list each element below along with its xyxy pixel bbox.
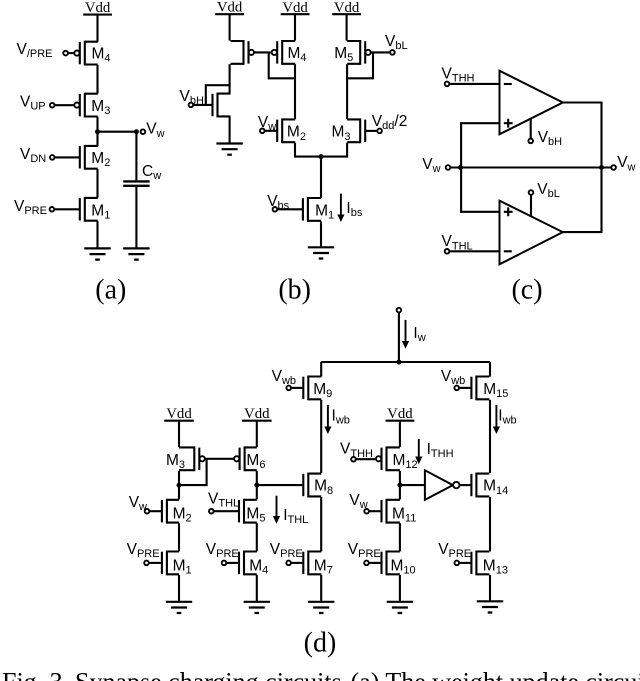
terminal V_DN: [50, 155, 55, 160]
wire U2 bias tap V_bL: [530, 195, 532, 216]
inverter U3 output bubble: [453, 482, 459, 488]
op-amp U1 (top comparator): [500, 71, 563, 135]
node rail junction: [396, 360, 401, 365]
terminal Vw (a): [141, 129, 146, 134]
transistor M3 (d, PMOS diode): [179, 446, 205, 471]
wire I_w terminal down to rail: [398, 312, 400, 362]
capacitor Cw: [123, 181, 149, 185]
terminal V_PRE (d col2): [222, 561, 227, 566]
wire bias NMOS source to ground: [229, 117, 231, 144]
svg-text:(a) The weight update circuit: (a) The weight update circuit: [351, 668, 640, 681]
transistor M2 (d): [162, 499, 179, 524]
svg-text:(b): (b): [278, 274, 311, 305]
node M3 drain junction: [177, 483, 182, 488]
svg-text:(a): (a): [95, 274, 126, 305]
wire M3 drain down through junction to M2 drain: [178, 471, 180, 499]
terminal V_PRE (d col4): [364, 561, 369, 566]
wire M4 drain to M3 source: [96, 65, 98, 94]
minus sign U2: [504, 250, 512, 252]
wire V_bs terminal to M1 gate: [277, 208, 303, 210]
ground below M1 (d): [166, 602, 192, 613]
terminal Vw right (c): [611, 165, 616, 170]
terminal Vdd/2: [377, 129, 382, 134]
terminal V_THH (d): [351, 457, 356, 462]
wire Vw terminal to M11 gate: [369, 510, 382, 512]
wire Vdd to M5 source: [346, 14, 348, 40]
terminal V_bH (c): [528, 139, 533, 144]
wire Vdd to left PMOS source: [229, 14, 231, 40]
minus sign U1: [504, 83, 512, 85]
wire V_bH gate to drain (diode connection): [206, 85, 230, 105]
wire node Vw to capacitor branch: [98, 131, 137, 133]
node Vw junction at capacitor: [134, 129, 139, 134]
wire V_PRE to M7 gate (d): [291, 562, 303, 564]
ground below V_bH device: [216, 144, 242, 155]
node M12 drain junction: [397, 483, 402, 488]
transistor M15: [471, 376, 489, 401]
wire M14 source to M13 drain: [489, 497, 491, 551]
wire M3 source to tail node: [321, 143, 347, 157]
wire V_THH to top comparator minus input: [449, 83, 499, 85]
wire M3 gate to Vdd/2 terminal: [365, 130, 377, 132]
transistor M11 (d): [382, 499, 400, 524]
svg-text:Vdd: Vdd: [244, 406, 270, 422]
svg-text:Vdd: Vdd: [166, 406, 192, 422]
terminal V_PRE (d col3): [286, 561, 291, 566]
terminal V_PRE (a): [50, 207, 55, 212]
terminal V_PRE (d col1): [144, 561, 149, 566]
transistor M3 (PMOS): [74, 93, 98, 118]
current arrow I_wb right: [493, 405, 500, 434]
terminal V_PRE (d col5): [455, 561, 460, 566]
transistor M6 (d, PMOS): [234, 446, 257, 471]
wire M2 source to tail node: [295, 143, 321, 157]
svg-text:Vdd: Vdd: [282, 0, 308, 16]
power Vdd rail (d) col2: [242, 406, 272, 422]
ground below M10 (d): [387, 602, 413, 613]
wire M3 drain through node Vw to M2 drain: [96, 117, 98, 146]
wire Vdd col3 down to M12 source: [399, 421, 401, 447]
wire M4 drain to M2 drain: [294, 64, 296, 119]
wire gate bus between PMOS bubbles: [254, 51, 271, 53]
wire junction to inverter input: [400, 484, 425, 486]
terminal V_THL (c): [445, 249, 450, 254]
node tail junction (b): [319, 154, 324, 159]
transistor M2 (NMOS): [80, 145, 98, 170]
wire M3 gate bus to M6 bubble: [205, 458, 234, 460]
transistor M1 (NMOS): [80, 197, 98, 222]
transistor M4 (PMOS): [74, 41, 98, 66]
wire V_PRE to M4 gate (d): [226, 562, 239, 564]
wire M3 gate to drain (diode connection): [179, 459, 207, 485]
wire V_THL terminal to M5 gate: [214, 510, 239, 512]
transistor M12 (d, PMOS): [376, 446, 400, 471]
plus sign U1: [504, 119, 513, 128]
transistor M3 (b): [347, 118, 365, 143]
svg-text:(d): (d): [304, 628, 337, 659]
wire M8 source to M7 drain: [320, 497, 322, 551]
wire V_PRE to M1 gate (d): [149, 562, 162, 564]
wire capacitor top: [135, 132, 137, 181]
terminal Vw (b): [260, 129, 265, 134]
wire V_PRE to M10 gate (d): [369, 562, 382, 564]
wire left PMOS drain down: [229, 64, 231, 93]
ground below M7 (d): [308, 602, 334, 613]
terminal V_bL (c): [529, 190, 534, 195]
wire V_THL to U2 minus input: [449, 250, 499, 252]
wire M5 source to M4 drain: [256, 523, 258, 551]
ground below M1 (b): [308, 247, 334, 258]
transistor bias NMOS V_bH (b): [213, 93, 231, 118]
wire M6 drain down through junction to M5 drain: [256, 471, 258, 499]
wire V_THH terminal to M12 bubble: [356, 458, 375, 460]
ground below M1 (a): [84, 248, 110, 259]
svg-text:Vdd: Vdd: [334, 0, 360, 16]
power Vdd rail (d) col3: [386, 406, 415, 422]
wire U1 bias tap V_bH: [530, 119, 532, 139]
transistor M4 (d): [239, 551, 257, 576]
transistor M2 (b): [277, 118, 295, 143]
terminal V_THL (d): [209, 509, 214, 514]
terminal V_bL (b): [390, 50, 395, 55]
wire V_PRE to M1 gate: [54, 208, 80, 210]
wire Vdd col1 down to M3 source: [178, 421, 180, 447]
wire V_DN to M2 gate: [55, 156, 80, 158]
wire Vdd to M4 source: [96, 15, 98, 42]
power Vdd rail (d) col1: [164, 406, 194, 422]
wire U2 output to right Vw node: [563, 168, 602, 233]
wire V_bH terminal to gate: [193, 104, 212, 106]
transistor M5 (d): [239, 499, 257, 524]
terminal V_THH (c): [445, 82, 450, 87]
plus sign U2: [504, 207, 513, 216]
current arrow I_w: [402, 320, 409, 349]
wire M5 bubble to V_bL terminal: [371, 51, 390, 53]
terminal Vw (d right): [364, 509, 369, 514]
transistor M8 (d): [303, 473, 321, 498]
transistor M4 (b, PMOS diode): [272, 40, 296, 65]
wire Vw terminal to M2 gate: [265, 130, 278, 132]
op-amp U2 (bottom comparator): [500, 201, 563, 265]
svg-text:Vdd: Vdd: [85, 0, 111, 16]
current arrow I_bs: [337, 194, 344, 222]
wire M5 gate to drain (diode connection): [347, 52, 373, 78]
transistor PMOS mirror (b left): [231, 40, 254, 65]
power Vdd rail (a): [83, 0, 112, 16]
svg-text:Synapse charging circuits.: Synapse charging circuits.: [75, 668, 348, 681]
ground below M13 (d): [477, 601, 503, 612]
inverter U3: [425, 470, 453, 500]
transistor M5 (b, PMOS diode): [347, 40, 371, 65]
wire M6 drain junction to M8 gate: [257, 484, 304, 486]
wire M9 source down to M8 drain: [320, 400, 322, 473]
wire tail node to M1 drain: [320, 157, 322, 198]
node Vw right junction: [599, 165, 604, 170]
wire M4 gate to drain (diode connection): [269, 52, 295, 78]
wire M1 source to ground: [96, 221, 98, 248]
current arrow I_THL: [273, 496, 280, 524]
terminal V_wb right: [454, 386, 459, 391]
wire V_wb to M15 gate: [459, 387, 471, 389]
wire Vdd to M4 source: [294, 14, 296, 40]
transistor M1 (d): [162, 551, 179, 576]
wire rail left end down to M9 drain: [320, 362, 322, 377]
wire U2 plus input to Vw line: [461, 168, 499, 212]
wire M1 source to ground (d): [178, 575, 180, 602]
wire V_wb to M9 gate: [291, 387, 303, 389]
ground below M4 (d): [244, 602, 270, 613]
current arrow I_wb left: [324, 405, 331, 434]
wire Vdd col2 down to M6 source: [256, 421, 258, 447]
node Vw junction at stack: [95, 129, 100, 134]
wire U1 output to right Vw node: [563, 103, 602, 168]
wire M11 source to M10 drain: [399, 523, 401, 551]
wire M1 source to ground: [320, 221, 322, 247]
node Vw left junction: [458, 165, 463, 170]
power Vdd rail (b) left: [215, 0, 244, 15]
transistor M10 (d): [382, 551, 400, 576]
terminal I_w input: [397, 308, 402, 313]
node M6 drain junction: [254, 483, 259, 488]
current arrow I_THH: [415, 439, 422, 464]
transistor M13 (d): [471, 551, 489, 576]
wire inverter output to M14 gate: [460, 484, 472, 486]
terminal V_bs: [273, 207, 278, 212]
terminal V_/PRE: [63, 51, 68, 56]
wire M2 source to M1 drain: [178, 523, 180, 551]
wire M10 source to ground (d): [399, 575, 401, 602]
transistor M1 (b): [303, 197, 321, 222]
transistor M14 (d): [471, 473, 489, 498]
terminal Vw left (c): [446, 165, 451, 170]
wire Vw horizontal line: [450, 166, 611, 168]
svg-text:Fig. 3.: Fig. 3.: [2, 668, 69, 681]
wire M4 source to ground (d): [256, 575, 258, 602]
wire M13 source to ground (d): [489, 575, 491, 601]
transistor M9: [303, 376, 321, 401]
wire M12 drain down through junction to M11 drain: [399, 471, 401, 499]
wire top rail: [321, 361, 490, 363]
terminal V_bH: [189, 103, 194, 108]
ground below Cw: [123, 248, 149, 259]
transistor M7 (d): [303, 551, 321, 576]
wire V_/PRE to M4 gate bubble: [68, 52, 74, 54]
terminal Vw (d left): [145, 509, 150, 514]
wire Vw terminal to M2 gate: [149, 510, 162, 512]
wire capacitor bottom to ground: [135, 186, 137, 248]
wire V_PRE to M13 gate (d): [459, 562, 471, 564]
wire M7 source to ground (d): [320, 575, 322, 602]
wire M2 source to M1 drain: [96, 169, 98, 198]
svg-text:(c): (c): [511, 274, 542, 305]
wire M5 drain to M3 drain: [346, 64, 348, 119]
wire rail right end down to M15 drain: [489, 362, 491, 377]
terminal V_wb left: [286, 386, 291, 391]
power Vdd rail (b) middle: [281, 0, 310, 16]
svg-text:Vdd: Vdd: [387, 406, 413, 422]
wire U1 plus input to Vw line: [461, 123, 499, 167]
power Vdd rail (b) right: [332, 0, 361, 16]
wire V_UP to M3 gate bubble: [55, 104, 75, 106]
terminal V_UP: [50, 103, 55, 108]
wire M15 source down to M14 drain: [489, 400, 491, 473]
svg-text:Vdd: Vdd: [217, 0, 243, 15]
